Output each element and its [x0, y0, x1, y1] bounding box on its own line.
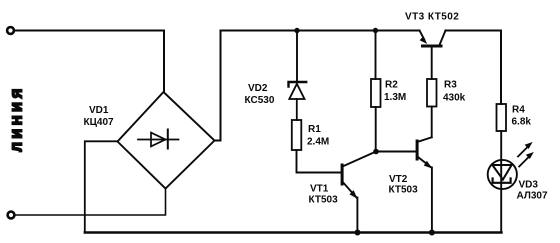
transistor VT3 emitter with arrow (PNP) [420, 31, 425, 41]
LED VD3 emission arrows [518, 142, 534, 167]
wire R2 to VT1 collector node [375, 107, 377, 152]
node junction dot R2/top rail [373, 28, 378, 33]
VD3 value label [517, 180, 548, 202]
LED VD3 circle [488, 160, 517, 189]
wire VT2 collector to R3 [431, 107, 433, 138]
diode bridge VD1 diamond outline [118, 92, 215, 189]
transistor VT3 base bar [421, 45, 443, 48]
svg-text:КТ503: КТ503 [389, 185, 419, 196]
LED VD3 triangle and cathode bar [492, 165, 511, 183]
VD2 value label [245, 83, 275, 106]
wire R1 to VT1 base [297, 150, 341, 173]
resistor R1 [292, 120, 302, 150]
wire top rail to VD2 [296, 31, 298, 82]
svg-text:R1: R1 [308, 124, 321, 135]
svg-text:1.3M: 1.3M [384, 92, 406, 103]
svg-text:VT1: VT1 [310, 184, 329, 195]
wire bottom-left terminal to bridge bottom vertex [15, 189, 166, 216]
R3 value label [443, 80, 466, 104]
node junction dot VT1 collector / R2 / VT2 base [373, 149, 379, 155]
node junction dot VT2 emitter/bottom rail [429, 230, 435, 236]
node junction dot VD2/top rail [294, 28, 299, 33]
wire bottom rail [85, 231, 502, 233]
node junction dot VT1 emitter/bottom rail [355, 230, 361, 236]
svg-text:R4: R4 [512, 105, 525, 116]
svg-text:R3: R3 [444, 80, 457, 91]
svg-text:АЛ307: АЛ307 [517, 191, 548, 202]
svg-text:VD1: VD1 [89, 105, 109, 116]
transistor VT1 collector [344, 152, 376, 167]
VT2 value label [389, 174, 419, 196]
R2 value label [384, 80, 406, 104]
VD1 value label [84, 105, 115, 128]
svg-text:R2: R2 [385, 80, 398, 91]
resistor R4 [497, 104, 507, 131]
transistor VT1 base bar [341, 164, 344, 186]
diode symbol inside VD1 [138, 130, 179, 149]
resistor R2 [371, 79, 381, 107]
wire bridge right vertex to top rail [215, 31, 420, 141]
svg-text:2.4M: 2.4M [307, 137, 329, 148]
wire VT3 collector to R4 (top rail right) [446, 31, 502, 105]
svg-text:VT2: VT2 [389, 174, 408, 185]
transistor VT3 collector [440, 31, 446, 45]
transistor VT1 emitter with arrow [344, 183, 357, 198]
VT1 value label [309, 184, 339, 206]
transistor VT2 base bar [416, 140, 419, 161]
svg-text:VD2: VD2 [248, 83, 268, 94]
transistor VT2 emitter with arrow [419, 158, 431, 168]
wire top-left terminal to bridge top [14, 31, 164, 93]
wire R3 to VT3 base [431, 47, 433, 79]
wire bridge left vertex to bottom rail [85, 141, 118, 232]
svg-text:КЦ407: КЦ407 [84, 117, 115, 128]
terminal X2 bottom-left [8, 212, 15, 219]
transistor VT2 collector [419, 137, 432, 141]
svg-text:КС530: КС530 [245, 95, 275, 106]
wire VT2 emitter to bottom rail [431, 168, 433, 233]
svg-text:6.8k: 6.8k [512, 117, 532, 128]
svg-text:430k: 430k [443, 93, 466, 104]
svg-text:VD3: VD3 [519, 180, 539, 191]
wire top rail to R2 [375, 31, 377, 80]
wire VT1 emitter to bottom rail [356, 198, 358, 233]
R1 value label [307, 124, 329, 148]
wire R4 to LED VD3 and through to bottom rail [500, 131, 502, 233]
svg-text:КТ503: КТ503 [309, 195, 339, 206]
R4 value label [512, 105, 532, 128]
svg-text:VT3 КТ502: VT3 КТ502 [405, 12, 459, 23]
svg-text:ЛИНИЯ: ЛИНИЯ [10, 85, 25, 152]
wire node to VT2 base [376, 151, 416, 153]
terminal X1 top-left [7, 27, 14, 34]
resistor R3 [427, 79, 437, 107]
zener diode VD2 [289, 82, 307, 120]
